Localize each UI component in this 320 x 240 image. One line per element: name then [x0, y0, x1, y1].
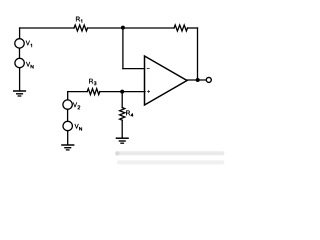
wire VN to ground [19, 68, 21, 91]
node A (feedback junction dot) [121, 26, 125, 30]
op-amp plus sign [147, 90, 150, 93]
ground (branch 1) [13, 91, 26, 96]
wire top rail left segment [20, 27, 74, 29]
wire right vertical feedback [197, 28, 199, 80]
label VN (branch 1) [26, 62, 33, 68]
wire branch1 top [19, 28, 21, 39]
resistor R1 [74, 25, 88, 31]
wire between V2 and VN [67, 109, 69, 121]
node B (noninverting junction dot) [120, 90, 124, 94]
wire branch2 top [67, 92, 69, 100]
wire R4 top [121, 92, 123, 108]
wire VN2 to ground [67, 131, 69, 145]
wire top rail right segment [188, 27, 198, 29]
op-amp minus sign [147, 68, 150, 70]
ground (branch 2) [61, 145, 74, 150]
wire R4 bottom [121, 120, 123, 138]
label R3 [89, 79, 96, 85]
wire to inverting input [123, 68, 145, 70]
watermark bar 1 [115, 151, 224, 155]
resistor R3 [87, 89, 100, 95]
output terminal [206, 77, 211, 82]
voltage source VN (branch 2) [63, 121, 72, 130]
voltage source VN (branch 1) [15, 58, 24, 67]
node C (output junction dot) [196, 78, 200, 82]
label VN (branch 2) [75, 124, 82, 131]
label V2 [73, 102, 80, 109]
voltage source V1 [15, 39, 24, 48]
resistor R4 [120, 108, 125, 121]
wire top rail middle segment [88, 27, 175, 29]
watermark bar 2 [117, 160, 224, 164]
ground (R4) [116, 138, 129, 143]
wire op-amp output [187, 79, 206, 81]
label R1 [76, 17, 82, 23]
wire noninverting rail right [100, 91, 145, 93]
wire between V1 and VN [19, 48, 21, 58]
wire inverting vertical from node [122, 28, 124, 69]
op-amp U1 [145, 56, 188, 105]
label V1 [26, 41, 32, 48]
resistor R2 (feedback) [174, 25, 188, 31]
label R4 [126, 111, 133, 117]
voltage source V2 [63, 100, 72, 109]
wire noninverting rail left [68, 91, 88, 93]
